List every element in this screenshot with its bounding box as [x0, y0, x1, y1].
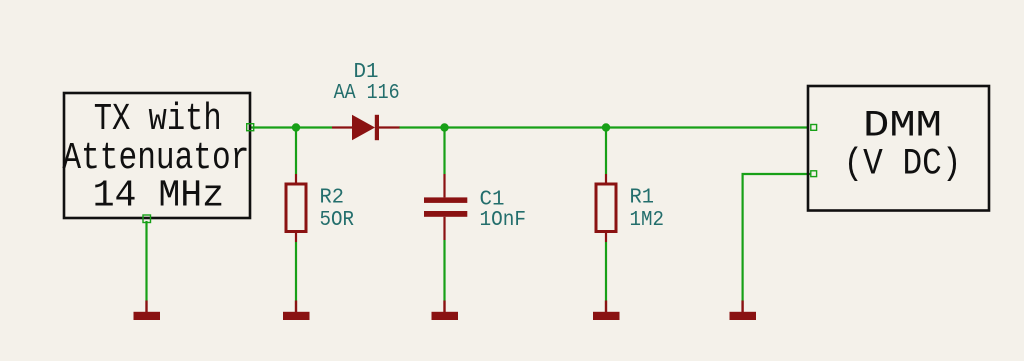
svg-text:1M2: 1M2 [630, 208, 665, 232]
wire junction C to R1 [605, 128, 607, 175]
diode D1 [332, 115, 400, 140]
wire main horizontal right segment [399, 126, 808, 128]
resistor R1 [596, 174, 616, 242]
svg-text:(V DC): (V DC) [844, 144, 962, 186]
junction node C [602, 123, 610, 131]
junction node A [292, 123, 300, 131]
ground under C1 [432, 301, 459, 321]
svg-text:DMM: DMM [863, 106, 942, 148]
wire main horizontal left segment [250, 126, 332, 128]
pin square TX right [247, 124, 254, 131]
svg-text:R2: R2 [320, 186, 345, 210]
wire C1 bottom to ground [443, 240, 445, 301]
pin square DMM pin 1 [811, 125, 817, 131]
ground under DMM return [730, 301, 757, 321]
wire R1 bottom to ground [605, 242, 607, 301]
box DMM (V DC) [808, 86, 989, 211]
wire junction B to C1 [443, 128, 445, 175]
capacitor C1 [424, 174, 467, 240]
pin square TX bottom [143, 215, 151, 223]
svg-text:14 MHz: 14 MHz [93, 175, 225, 218]
svg-text:TX with: TX with [94, 98, 222, 141]
wire TX bottom to ground [145, 221, 147, 301]
wire junction A to R2 [295, 128, 297, 175]
svg-text:R1: R1 [630, 186, 655, 210]
box TX with Attenuator 14 MHz [62, 93, 250, 218]
ground under R1 [593, 301, 620, 321]
svg-text:D1: D1 [354, 60, 379, 84]
junction node B [440, 123, 448, 131]
svg-text:5OR: 5OR [320, 208, 355, 232]
svg-text:Attenuator: Attenuator [62, 137, 249, 180]
svg-text:1OnF: 1OnF [480, 208, 527, 232]
wire R2 bottom to ground [295, 242, 297, 301]
ground under TX [134, 301, 161, 321]
wire DMM pin2 horizontal [743, 174, 811, 301]
svg-text:AA 116: AA 116 [334, 81, 400, 105]
pin square DMM pin 2 [811, 171, 817, 177]
ground under R2 [283, 301, 310, 321]
resistor R2 [286, 174, 306, 242]
